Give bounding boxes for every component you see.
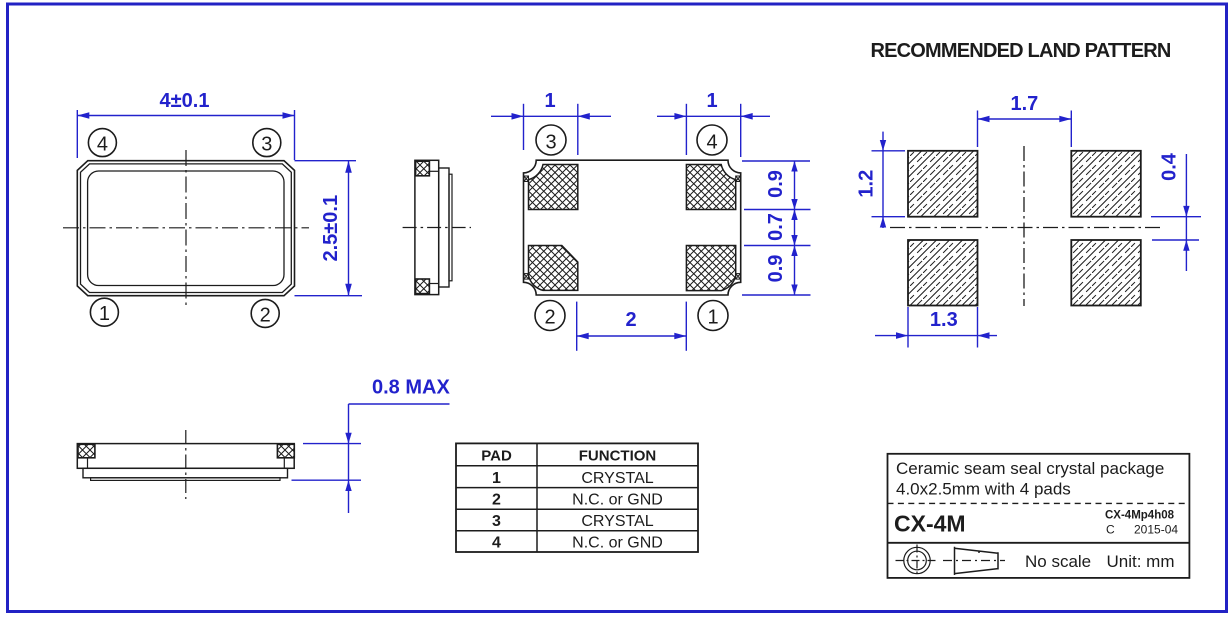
dim 2 extension lines <box>576 302 578 351</box>
castellation nub pad 1 <box>736 274 741 280</box>
svg-text:2: 2 <box>260 304 271 326</box>
svg-text:0.9: 0.9 <box>765 170 787 198</box>
svg-text:CRYSTAL: CRYSTAL <box>581 513 653 530</box>
top view outer outline <box>77 161 294 296</box>
side view bottom castellation step <box>429 283 438 285</box>
svg-text:0.9: 0.9 <box>765 255 787 283</box>
projection symbol centerline <box>943 560 1005 562</box>
side view bottom pad <box>416 279 430 294</box>
top view horizontal centerline <box>63 227 309 229</box>
land pad top-right <box>1071 151 1141 217</box>
dims 0.9/0.7/0.9 extension lines <box>742 160 810 162</box>
svg-text:4±0.1: 4±0.1 <box>160 90 210 112</box>
svg-text:1: 1 <box>99 303 110 325</box>
castellation nub pad 3 <box>524 176 529 182</box>
front view left castellation <box>87 458 89 469</box>
svg-text:2: 2 <box>544 307 555 329</box>
front view right castellation <box>283 458 285 469</box>
svg-text:N.C. or GND: N.C. or GND <box>572 491 663 508</box>
svg-text:2015-04: 2015-04 <box>1134 523 1178 537</box>
table outer border <box>456 443 698 552</box>
top view vertical centerline <box>185 150 187 306</box>
title block solid divider <box>888 542 1190 544</box>
svg-text:3: 3 <box>261 134 272 156</box>
svg-text:0.4: 0.4 <box>1159 152 1181 181</box>
side view lid lip <box>449 174 452 281</box>
side view body <box>415 160 439 294</box>
pin 1 callout circle <box>90 298 118 326</box>
svg-text:FUNCTION: FUNCTION <box>579 448 657 465</box>
land pad top-left <box>908 151 978 217</box>
dim 1.3 extension lines <box>907 307 909 348</box>
pin 1 callout circle <box>698 301 728 331</box>
table column divider <box>536 443 538 552</box>
svg-text:4: 4 <box>492 535 501 552</box>
castellation nub pad 4 <box>736 176 741 182</box>
dim 1.2 extension lines <box>872 150 906 152</box>
svg-text:1: 1 <box>544 90 555 112</box>
front view base plate <box>91 478 280 481</box>
pin 2 callout circle <box>535 301 565 331</box>
dim 1.3 dimension line with outside arrows <box>875 335 997 337</box>
dim 4±0.1 dimension line <box>77 115 294 117</box>
pin 3 callout circle <box>253 129 281 157</box>
svg-text:4.0x2.5mm with 4 pads: 4.0x2.5mm with 4 pads <box>896 480 1071 499</box>
svg-text:RECOMMENDED LAND PATTERN: RECOMMENDED LAND PATTERN <box>870 40 1170 62</box>
svg-text:1.3: 1.3 <box>930 309 958 331</box>
projection symbol circles <box>904 547 930 573</box>
front view right pad <box>277 444 294 458</box>
dim 1 (right) extension lines <box>685 104 687 155</box>
castellation nub pad 2 <box>524 274 529 280</box>
svg-text:CRYSTAL: CRYSTAL <box>581 470 653 487</box>
dim 1.7 extension lines <box>977 111 979 148</box>
table row lines <box>456 465 698 467</box>
projection symbol crosshair <box>896 560 939 562</box>
dim 2 dimension line <box>577 335 687 337</box>
side view top pad <box>416 161 430 176</box>
svg-text:3: 3 <box>545 132 556 154</box>
front view lid <box>83 468 288 478</box>
pad 2 (hatched, chamfered) <box>529 246 578 291</box>
pin 4 callout circle <box>697 125 727 155</box>
svg-text:2: 2 <box>625 309 636 331</box>
pin 3 callout circle <box>536 125 566 155</box>
svg-text:C: C <box>1106 523 1115 537</box>
pin 2 callout circle <box>251 299 279 327</box>
projection symbol cone <box>955 547 999 575</box>
front view body <box>77 444 294 469</box>
dim 0.4 dimension line with outside arrows <box>1185 154 1187 271</box>
svg-text:PAD: PAD <box>481 448 512 465</box>
svg-text:1: 1 <box>706 90 717 112</box>
svg-text:1: 1 <box>492 470 501 487</box>
side view top castellation step <box>429 170 438 172</box>
dim 4±0.1 extension lines <box>76 110 78 158</box>
title block border <box>888 454 1190 578</box>
dim 0.4 extension lines <box>1151 216 1201 218</box>
svg-text:CX-4Mp4h08: CX-4Mp4h08 <box>1105 509 1175 521</box>
svg-text:No scale: No scale <box>1025 552 1091 571</box>
dim 2.5±0.1 dimension line <box>348 161 350 296</box>
dim 1.7 dimension line <box>978 118 1072 120</box>
svg-text:1: 1 <box>707 307 718 329</box>
title block dashed divider <box>888 502 1190 504</box>
side view centerline <box>403 227 471 229</box>
svg-text:0.7: 0.7 <box>765 213 787 241</box>
pad 3 (hatched) <box>529 165 578 210</box>
dim 1 (left) extension lines <box>523 104 525 150</box>
pad 4 (hatched) <box>686 165 735 210</box>
svg-text:1.2: 1.2 <box>856 170 878 198</box>
side view lid <box>439 168 449 287</box>
svg-text:N.C. or GND: N.C. or GND <box>572 535 663 552</box>
land pattern vertical centerline <box>1023 146 1025 306</box>
svg-text:2.5±0.1: 2.5±0.1 <box>320 195 342 262</box>
dim 1 (right) dimension line with outside arrows <box>657 115 741 117</box>
land pattern horizontal centerline <box>890 227 1160 229</box>
top view middle outline <box>81 164 292 293</box>
dim 2.5±0.1 extension lines <box>295 160 357 162</box>
svg-text:CX-4M: CX-4M <box>894 511 966 537</box>
svg-text:3: 3 <box>492 513 501 530</box>
dim 0.8 MAX extension lines <box>303 443 361 445</box>
pin 4 callout circle <box>88 129 116 157</box>
front view left pad <box>78 444 95 458</box>
dim 1 (left) dimension line with outside arrows <box>491 115 578 117</box>
top view inner cavity outline <box>88 171 284 286</box>
pad 1 (hatched) <box>686 246 735 291</box>
svg-text:Unit: mm: Unit: mm <box>1107 552 1175 571</box>
bottom view outline with corner castellations <box>524 160 741 295</box>
svg-text:4: 4 <box>706 132 717 154</box>
dim 1.2 dimension line with outside arrows <box>882 132 884 228</box>
svg-text:0.8 MAX: 0.8 MAX <box>372 377 450 399</box>
front view centerline <box>185 430 187 499</box>
svg-text:Ceramic seam seal crystal pack: Ceramic seam seal crystal package <box>896 459 1164 478</box>
land pad bottom-right <box>1071 240 1141 306</box>
dims 0.9/0.7/0.9 dimension line <box>794 161 796 295</box>
land pad bottom-left <box>908 240 978 306</box>
svg-text:2: 2 <box>492 491 501 508</box>
dim 0.8 MAX dimension line and leader <box>348 404 350 513</box>
svg-text:4: 4 <box>97 134 108 156</box>
svg-text:1.7: 1.7 <box>1010 93 1038 115</box>
